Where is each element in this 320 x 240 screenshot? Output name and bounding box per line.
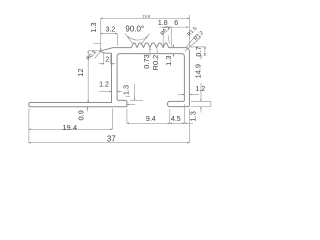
svg-text:R0.3: R0.3 [86, 50, 98, 62]
svg-text:14.9: 14.9 [194, 64, 203, 78]
dim 14.9 right rotated [200, 55, 202, 101]
leader R0.2 serration end [168, 35, 170, 44]
svg-text:1.3: 1.3 [89, 22, 98, 32]
svg-text:1.3: 1.3 [189, 111, 198, 121]
svg-text:6: 6 [174, 20, 178, 27]
dim 1.2 right wall [178, 94, 199, 96]
dim 1.2 left wall [99, 91, 122, 93]
dim 1.3 plate thickness rotated [173, 44, 175, 57]
dim 2 lip [99, 53, 116, 65]
svg-text:1.3: 1.3 [164, 56, 173, 66]
svg-text:19.8: 19.8 [142, 13, 151, 18]
dim 1.3 left hook rotated [126, 84, 143, 105]
dim R0.2 tooth radius rotated [156, 48, 159, 54]
svg-text:0.7: 0.7 [194, 46, 203, 56]
leader R1.2 inner corner [185, 37, 201, 51]
dim 37 overall [29, 142, 190, 144]
svg-text:2: 2 [105, 57, 109, 64]
svg-text:19.4: 19.4 [62, 123, 77, 132]
leader R1.5 outer corner [186, 34, 197, 47]
svg-text:9.4: 9.4 [146, 116, 156, 123]
dim 0.7 right top rotated [190, 47, 206, 55]
svg-text:37: 37 [107, 135, 116, 144]
svg-text:4.5: 4.5 [171, 116, 181, 123]
dim 12 left rotated [88, 51, 100, 103]
dims 9.4 / 4.5 / 1.3 bottom [127, 104, 193, 143]
dim 3.2 [101, 34, 118, 46]
dim 0.9 flange thickness rotated [87, 107, 89, 112]
dim 0.73 tooth height rotated [149, 48, 151, 57]
dims 1.8 and 6 top right [160, 27, 189, 47]
svg-text:90.0°: 90.0° [125, 24, 144, 33]
profile outline [29, 43, 190, 107]
svg-text:1.2: 1.2 [195, 86, 205, 93]
svg-text:3.2: 3.2 [106, 27, 116, 34]
svg-text:1.2: 1.2 [99, 82, 109, 89]
svg-text:1.3: 1.3 [122, 85, 131, 95]
svg-text:R0.2: R0.2 [151, 55, 160, 71]
svg-text:0.73: 0.73 [142, 54, 151, 68]
dim 1.3 right foot rotated [191, 101, 211, 112]
svg-text:0.9: 0.9 [77, 110, 86, 120]
svg-text:12: 12 [76, 68, 85, 76]
dim 19.4 [29, 108, 113, 143]
dim 19.8 top overall [94, 15, 190, 51]
leader R0.3 lip [95, 52, 101, 59]
